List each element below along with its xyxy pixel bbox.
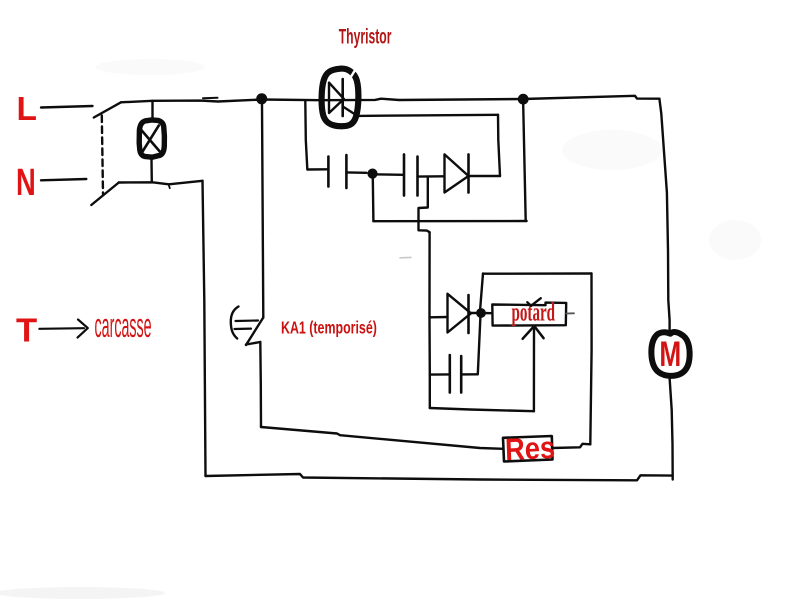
faint eraser mark [400,256,411,258]
capacitor C3 left wire [430,373,450,376]
svg-text:L: L [17,91,37,128]
wire gate line horizontal [357,115,498,116]
thyristor gate diagonal [343,107,357,116]
diode D2 triangle [448,294,472,333]
wire dot3 drop [372,178,375,221]
resistor Res rect [503,436,553,462]
capacitor C1 left plate [327,157,330,187]
svg-text:potard: potard [512,297,556,326]
KA1 bar upper [236,319,259,322]
pen tick on N rail [169,185,170,189]
wire jog down from C2-D1 node [419,177,430,233]
wire lower block bottom [430,408,534,411]
potard wiper arrowhead [523,326,544,339]
svg-text:Thyristor: Thyristor [339,24,392,48]
thyristor circle blob [322,69,359,127]
wire dot1 to KA1 [262,104,263,318]
node junction dot 4 [476,308,486,318]
wire dot3 to C2 [378,173,403,176]
wire bottom rail [206,474,673,480]
diode D1 cathode bar [467,154,470,192]
wire C2 to D1 [418,175,444,178]
wire gate riser [498,115,500,176]
diode D1 triangle [445,154,469,192]
wire KA1 to Res [261,427,503,449]
wire dot4 to potard [481,312,492,315]
capacitor C3 left plate [448,355,451,393]
wire N rail after switch [119,181,203,185]
wire potard top loop [483,272,592,275]
wire riser to dot2 [523,104,526,221]
wire C1 left drop [305,100,327,169]
KA1 blade bottom jog [246,342,260,345]
node junction dot 3 [367,169,377,179]
wire from N [41,179,86,180]
wire D2 anode [430,316,448,319]
thyristor cathode bar [341,79,344,116]
lamp stem top [151,101,153,119]
capacitor C3 right plate [460,356,463,393]
wire dot4 riser [480,274,483,309]
svg-text:carcasse: carcasse [95,306,152,345]
KA1 arc [231,307,239,339]
wire D2 to dot4 [470,312,478,314]
wire dot2 to top right corner [523,96,659,99]
potard top diagonal arrow [527,298,541,306]
svg-text:N: N [16,162,36,204]
svg-text:T: T [16,312,38,349]
svg-text:M: M [659,334,681,374]
node junction dot 1 [256,93,267,104]
wire from L [41,106,93,108]
motor bottom wire [670,378,673,480]
wire C1 to dot [346,171,366,174]
lamp stem bottom [150,160,153,183]
wire potard loop right drop [590,274,591,445]
thyristor triangle [329,83,344,113]
node junction dot 2 [518,94,529,105]
wire left drop [203,181,206,476]
capacitor C2 right plate [416,157,419,196]
switch pole lower blade [91,183,119,206]
wire top rail tick [203,97,218,100]
wire bottom of trigger loop [373,220,526,223]
capacitor C3 right wire [461,373,477,376]
capacitor C2 left plate [403,154,406,195]
wire dot1 to thyristor [262,98,320,101]
wire D1 to riser [469,175,501,177]
arrowhead [78,320,88,338]
lamp X [141,126,162,155]
potard right stub [566,312,574,314]
diode D2 cathode bar [467,295,470,333]
lamp circle blob [139,120,164,157]
switch pole upper blade [94,102,121,117]
wire Res right zigzag [553,444,591,448]
motor top wire [659,99,669,331]
thyristor ring notch [351,71,355,78]
wire KA1 down [259,342,262,427]
wire left side of lower block [428,232,431,408]
svg-text:KA1 (temporisé): KA1 (temporisé) [281,318,377,338]
potentiometer rect [492,303,566,326]
arrow T to carcasse [39,327,84,330]
KA1 bar lower [235,328,252,331]
potard wiper arrow shaft [533,327,535,412]
svg-text:Res: Res [504,431,555,467]
wire top rail [121,100,262,103]
KA1 timed contact blade [246,318,263,346]
wire C3 riser to dot4 [478,317,481,374]
switch link dashed [102,116,103,195]
capacitor C1 right plate [345,155,348,188]
motor circle blob [651,332,689,376]
wire through thyristor [320,99,523,101]
